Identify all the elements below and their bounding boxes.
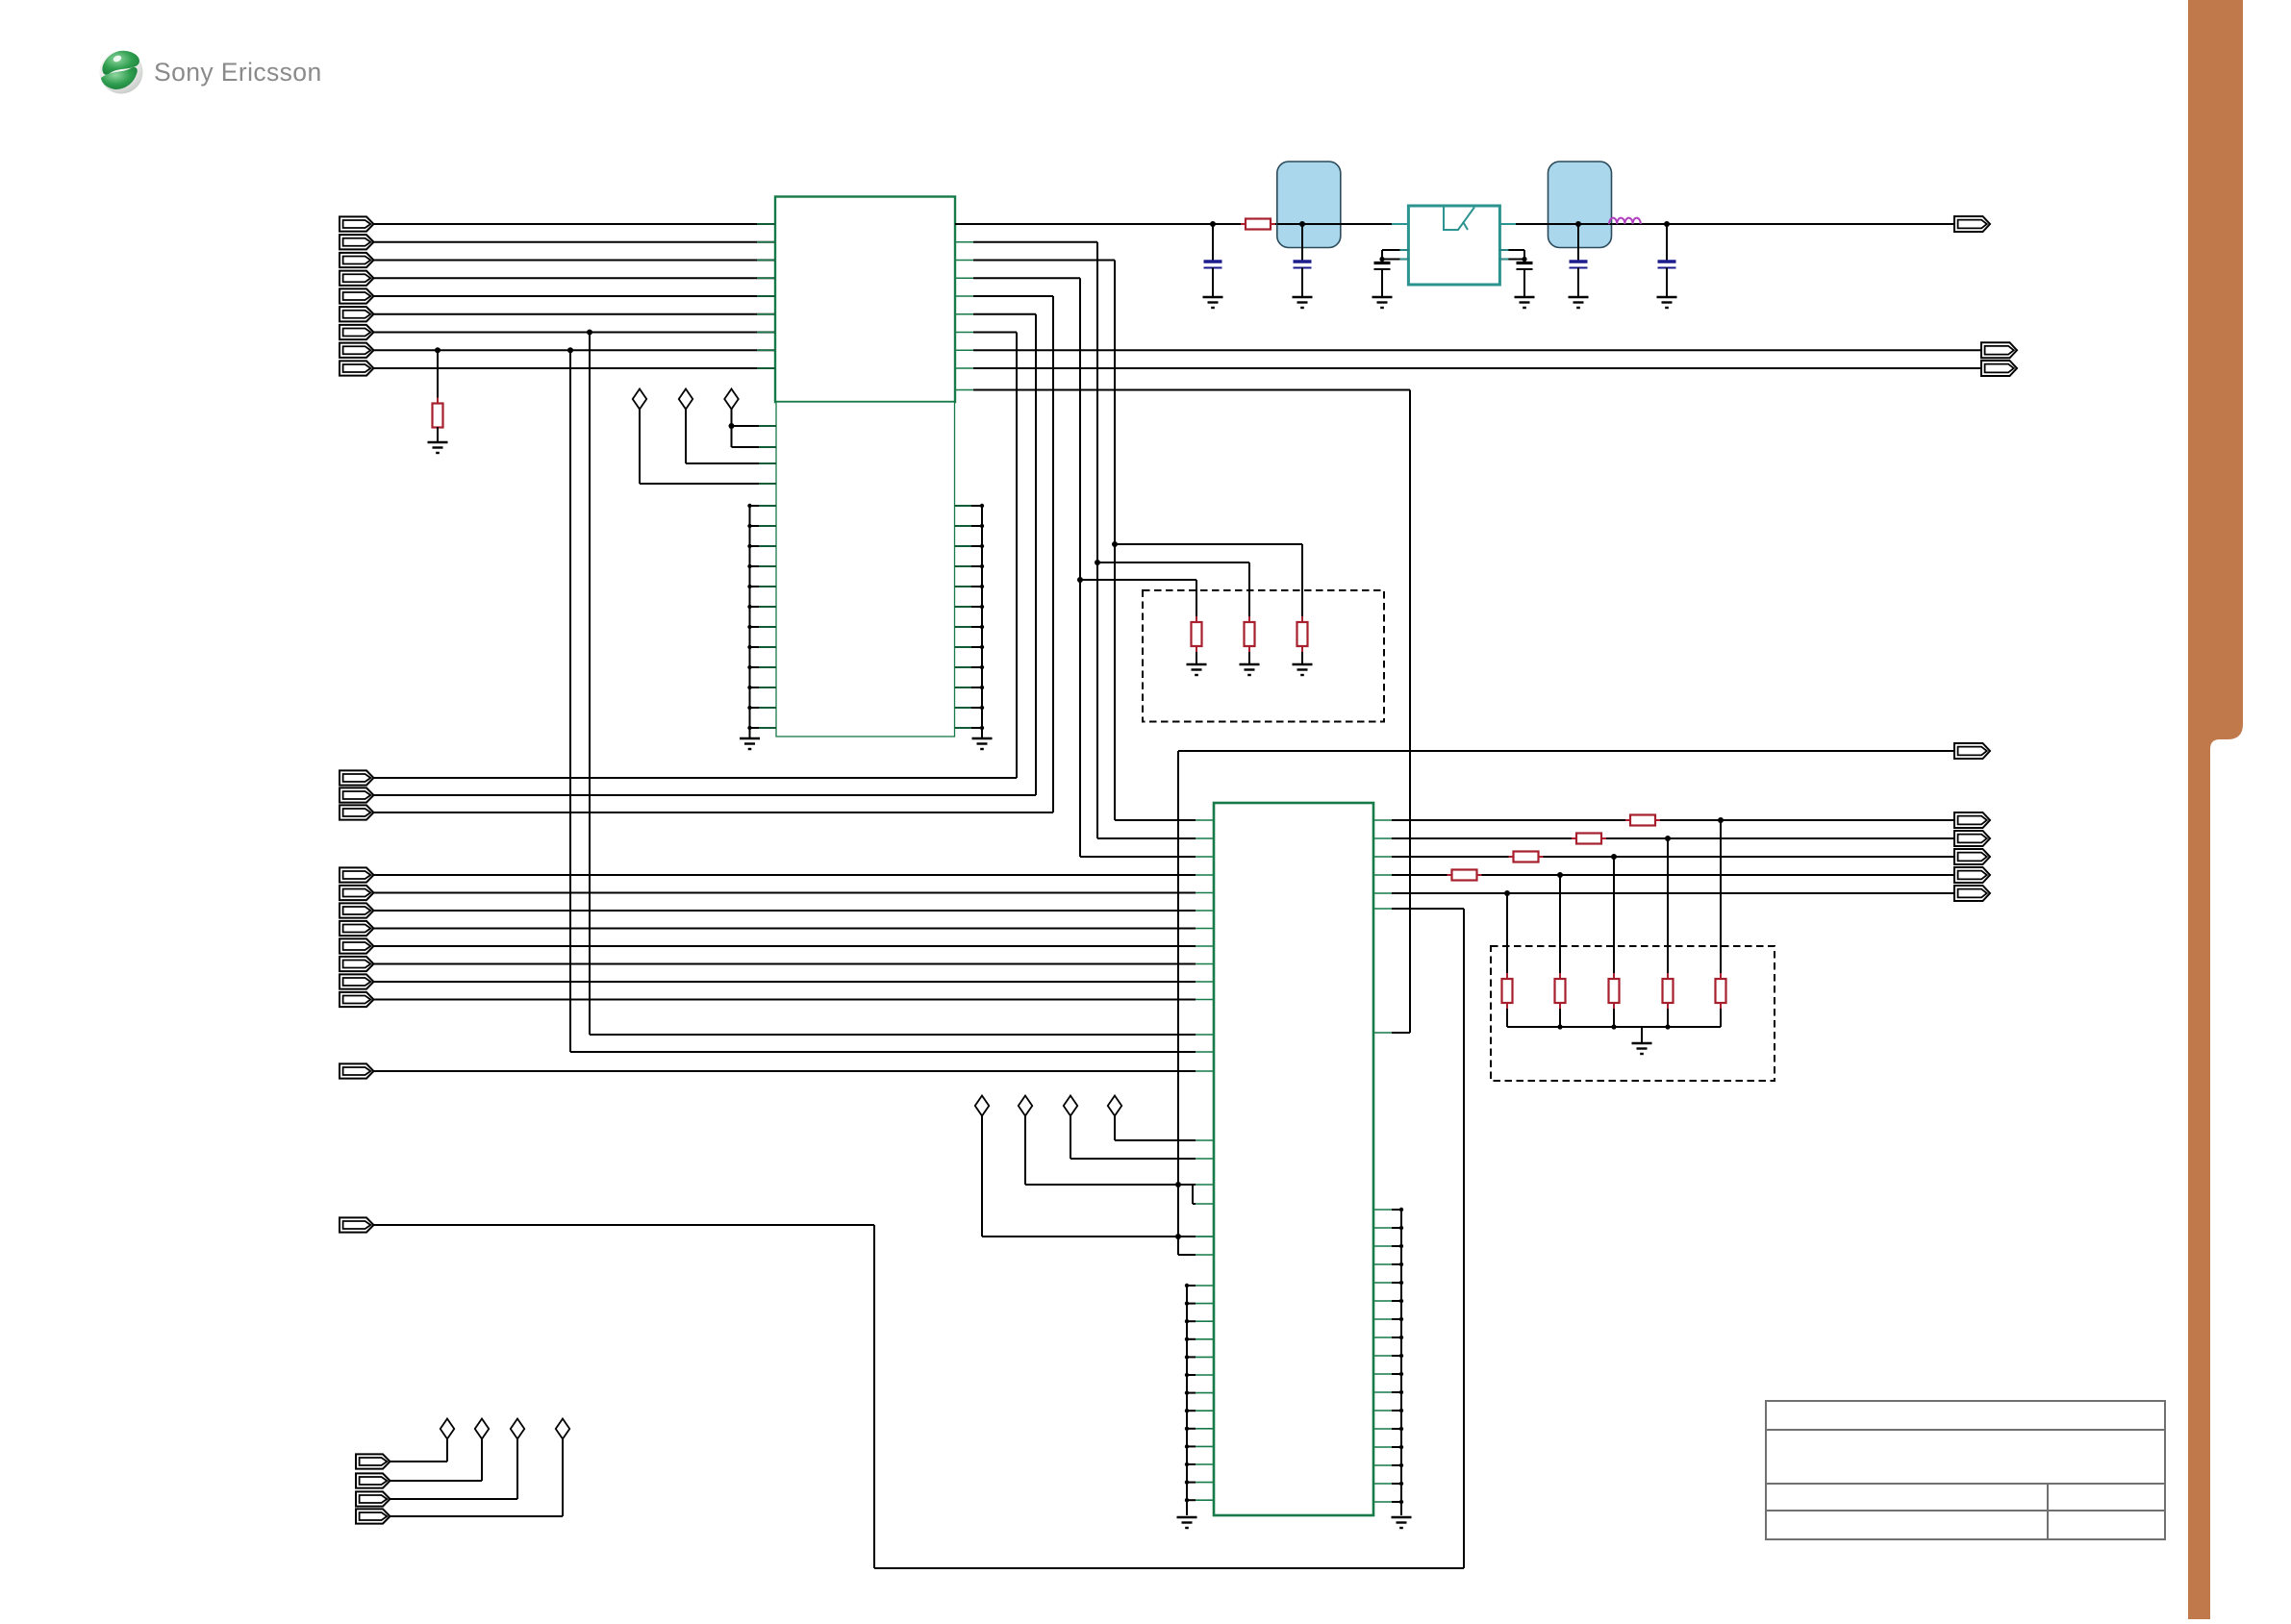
svg-text:Sony Ericsson: Sony Ericsson (154, 58, 322, 87)
